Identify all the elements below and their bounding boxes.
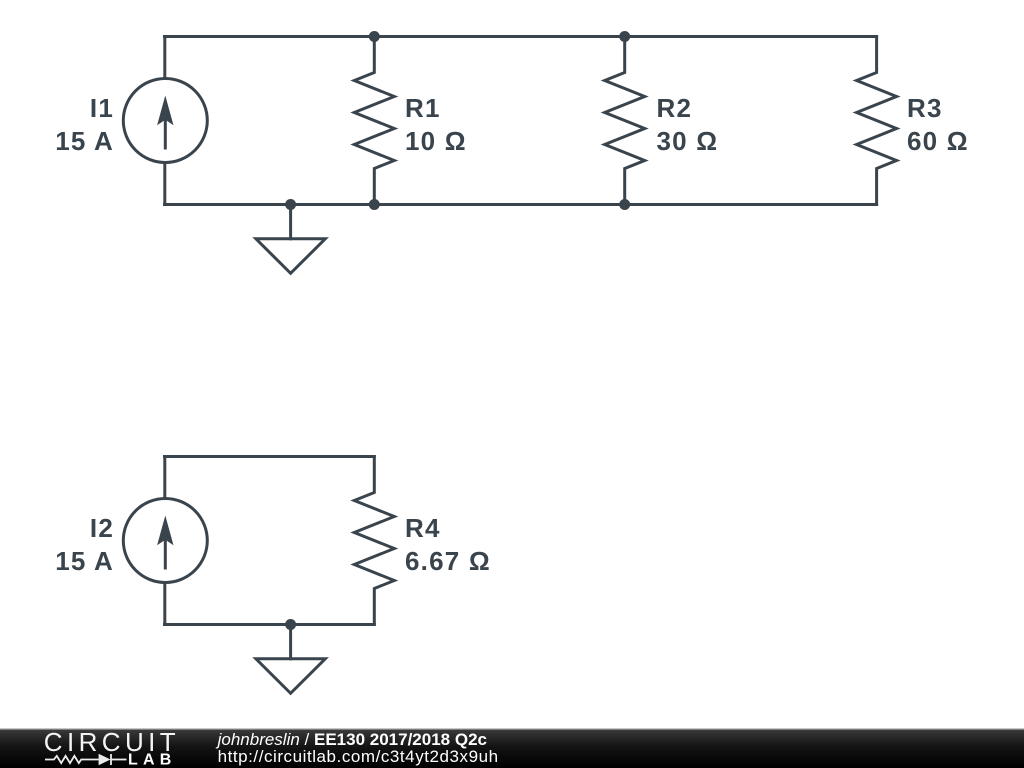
junction dot node 0 (R2 bottom) [619, 199, 630, 210]
ground GND1 [256, 205, 325, 274]
logo resistor zigzag and diode [45, 754, 127, 765]
wire bottom rail circuit 1 [165, 203, 877, 206]
svg-text:R1: R1 [405, 93, 441, 123]
wire top rail circuit 2 [165, 455, 375, 458]
svg-text:30 Ω: 30 Ω [657, 126, 719, 156]
resistor R2 [605, 37, 645, 205]
svg-text:10 Ω: 10 Ω [405, 126, 467, 156]
resistor R1 [354, 37, 394, 205]
svg-text:http://circuitlab.com/c3t4yt2d: http://circuitlab.com/c3t4yt2d3x9uh [218, 747, 499, 766]
svg-text:6.67 Ω: 6.67 Ω [405, 546, 491, 576]
resistor R4 [354, 457, 394, 625]
wire bottom rail circuit 2 [165, 623, 375, 626]
svg-text:15 A: 15 A [55, 546, 114, 576]
resistor R3 [857, 37, 897, 205]
svg-text:I1: I1 [90, 93, 114, 123]
junction dot node 0 (R1 bottom) [369, 199, 380, 210]
wire top rail circuit 1 [165, 35, 877, 38]
svg-text:I2: I2 [90, 513, 114, 543]
svg-text:60 Ω: 60 Ω [907, 126, 969, 156]
ground GND2 [256, 625, 325, 694]
current source I1 [123, 37, 207, 205]
junction dot node A (R1 top) [369, 31, 380, 42]
current source I2 [123, 457, 207, 625]
svg-text:R3: R3 [907, 93, 943, 123]
junction dot node A (R2 top) [619, 31, 630, 42]
junction dot ground 1 [285, 199, 296, 210]
svg-text:LAB: LAB [128, 752, 176, 768]
junction dot ground 2 [285, 619, 296, 630]
svg-text:R4: R4 [405, 513, 441, 543]
footer bar [0, 729, 1024, 768]
svg-text:15 A: 15 A [55, 126, 114, 156]
svg-text:R2: R2 [657, 93, 693, 123]
